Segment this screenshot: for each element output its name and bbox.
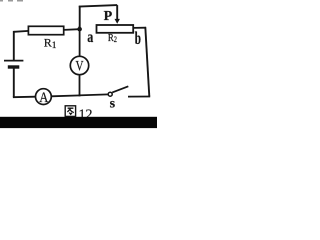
node junction dot <box>77 27 82 32</box>
caption glyph 图 (drawn strokes) <box>65 106 75 117</box>
switch blade <box>112 86 128 92</box>
rheostat R2 box <box>97 25 134 33</box>
label b (terminal) <box>135 30 141 49</box>
wire: ammeter to voltmeter tap <box>51 94 80 97</box>
wire: R1 right to junction <box>64 28 80 31</box>
faint cropped text remnants top edge <box>0 0 3 2</box>
slider arrowhead <box>115 19 120 24</box>
voltmeter <box>70 56 88 74</box>
wire: voltmeter down to bottom wire <box>79 75 81 97</box>
wire: tap to switch pivot <box>79 94 109 95</box>
battery cell: long plate <box>4 60 23 62</box>
svg-text:b: b <box>135 30 141 49</box>
wire: bottom right to switch contact <box>128 96 150 98</box>
wire: right vertical rail <box>145 27 149 97</box>
label R2 <box>108 32 117 44</box>
wire: left vertical lower <box>13 67 15 97</box>
wire: junction up to top rail <box>79 6 81 27</box>
slider arrow shaft <box>116 5 118 19</box>
wire: top-left horizontal battery to R1 <box>14 30 29 33</box>
wire: top rail to slider <box>79 5 117 7</box>
wire: junction down to voltmeter <box>79 26 81 57</box>
wire: bottom-left to ammeter <box>13 96 36 99</box>
svg-text:a: a <box>87 28 93 46</box>
svg-text:R2: R2 <box>108 32 117 44</box>
switch pivot <box>108 92 112 96</box>
wire: R2 right to right rail <box>134 27 146 29</box>
svg-text:A: A <box>39 89 48 105</box>
svg-text:R1: R1 <box>44 36 57 50</box>
wire: left vertical upper <box>13 31 15 61</box>
svg-text:s: s <box>110 97 116 112</box>
battery cell: short thick plate <box>8 65 19 68</box>
ammeter <box>36 89 52 105</box>
svg-text:V: V <box>75 57 83 74</box>
svg-text:P: P <box>104 9 113 24</box>
black censor bar <box>0 117 157 128</box>
label a (terminal) <box>87 28 93 46</box>
resistor R1 box <box>28 26 63 34</box>
